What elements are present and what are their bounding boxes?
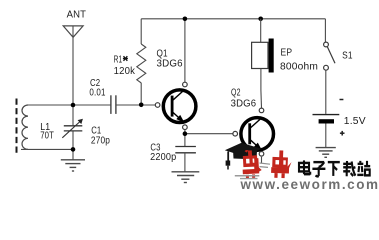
L1 ferrite core dashed line: [16, 99, 18, 156]
watermark logo graduation cap: [225, 143, 262, 166]
node junction L1 bottom / C1 / ground: [71, 147, 76, 152]
node junction antenna/L1/C1/C2: [71, 103, 76, 108]
wire emitter node down to C3: [184, 134, 186, 147]
wire S1 to battery: [325, 70, 327, 114]
transistor Q1: [155, 82, 196, 129]
watermark bug 2: [271, 150, 292, 178]
wire battery to ground: [325, 124, 327, 148]
wire EP bottom to Q2 collector: [260, 69, 262, 90]
earphone EP: [252, 42, 268, 68]
wire to ground: [72, 149, 74, 159]
svg-text:800ohm: 800ohm: [280, 62, 318, 73]
capacitor C2: [111, 95, 116, 114]
switch S1: [324, 42, 329, 47]
wire emitter node to Q2 base: [185, 133, 233, 135]
svg-text:3DG6: 3DG6: [231, 98, 257, 109]
svg-text:ANT: ANT: [67, 9, 87, 20]
watermark link dash: [260, 163, 271, 167]
ground (tank): [61, 160, 85, 171]
svg-text:120k: 120k: [114, 66, 136, 77]
wire top rail: [141, 18, 325, 20]
node junction EP top: [258, 17, 263, 22]
node junction collector/rail: [183, 17, 188, 22]
label plus: [340, 131, 345, 136]
下: [328, 162, 340, 176]
transistor Q2: [233, 108, 274, 150]
wire Q1 collector: [184, 19, 186, 82]
node junction R1/base: [139, 103, 144, 108]
子: [312, 162, 325, 176]
svg-text:Q2: Q2: [231, 88, 241, 99]
svg-text:R1: R1: [114, 54, 123, 65]
wire tank top / base wire: [27, 104, 155, 106]
wire Q2 emitter stub: [261, 157, 263, 163]
antenna symbol: [63, 26, 83, 37]
wire EP top: [260, 19, 262, 43]
svg-text:70T: 70T: [40, 131, 54, 142]
wire tank bottom: [21, 148, 73, 150]
label minus: [340, 99, 344, 101]
capacitor C1 (variable): [64, 126, 83, 131]
watermark text 电子下载站 (drawn): [299, 160, 370, 176]
watermark bug 1: [242, 149, 262, 178]
svg-text:3DG6: 3DG6: [157, 59, 184, 70]
电: [299, 160, 310, 174]
svg-text:www.eeworm.com: www.eeworm.com: [240, 177, 379, 191]
svg-text:2200p: 2200p: [150, 152, 177, 163]
star mark: [123, 56, 128, 61]
svg-text:S1: S1: [342, 51, 353, 62]
node junction emitter: [183, 131, 188, 136]
ground (battery): [316, 148, 336, 158]
switch S1 wire from rail: [324, 19, 326, 42]
svg-text:0.01: 0.01: [89, 88, 105, 99]
站: [357, 161, 370, 175]
watermark speed lines: [235, 176, 259, 179]
svg-text:EP: EP: [281, 48, 293, 59]
transistor Q2 emitter pin over cap: [259, 152, 264, 157]
capacitor C3: [175, 147, 196, 153]
inductor L1: [22, 105, 28, 149]
wire antenna lead: [72, 26, 74, 105]
svg-text:1.5V: 1.5V: [344, 116, 366, 127]
ground (C3): [172, 172, 200, 183]
battery BT1: [313, 114, 340, 116]
载: [343, 161, 355, 176]
svg-text:270p: 270p: [91, 135, 110, 146]
C1 leads: [72, 105, 74, 149]
wire Q1 emitter stub: [184, 129, 186, 133]
resistor R1: [137, 19, 146, 105]
wire C3 to ground: [184, 153, 186, 172]
